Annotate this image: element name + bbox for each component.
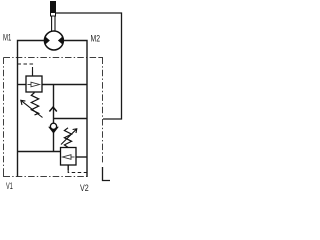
svg-text:V1: V1 bbox=[6, 181, 13, 191]
svg-text:V2: V2 bbox=[80, 183, 89, 193]
svg-text:M2: M2 bbox=[91, 33, 101, 43]
svg-text:M1: M1 bbox=[3, 33, 11, 43]
